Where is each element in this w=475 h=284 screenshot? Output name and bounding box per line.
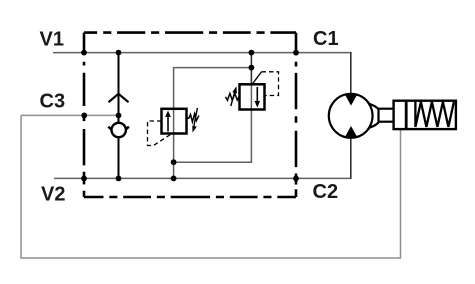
- junction dot top box-left: [81, 50, 87, 56]
- motor triangle top: [345, 94, 358, 106]
- junction dot C3 check-valve: [116, 113, 122, 119]
- wire brake release loop: [21, 115, 401, 258]
- motor shaft collar: [369, 104, 381, 128]
- svg-text:V1: V1: [40, 29, 64, 51]
- enclosure dashed box left edge: [83, 33, 86, 197]
- motor circle M1: [329, 94, 373, 138]
- junction dot bottom box-left: [81, 176, 87, 182]
- junction dot relief cross: [171, 159, 177, 165]
- wire motor bottom stub: [350, 137, 352, 179]
- motor triangle bottom: [345, 126, 358, 138]
- junction dot relief bridge: [249, 65, 255, 71]
- relief valve left pilot dashed line: [148, 121, 171, 146]
- relief valve right adjust arrow: [231, 93, 235, 107]
- enclosure dashed box bottom edge: [84, 196, 296, 199]
- wire relief bridge bottom: [173, 134, 175, 179]
- relief valve right box: [240, 84, 265, 109]
- enclosure dashed box right edge: [295, 33, 298, 197]
- svg-text:C1: C1: [313, 28, 339, 50]
- wire relief feed stub: [250, 53, 252, 85]
- check valve flow arrow: [109, 94, 129, 102]
- junction dot C3 box-left-edge: [81, 113, 87, 119]
- brake piston: [405, 101, 408, 129]
- wire V2 to C2 main bottom line: [54, 177, 351, 179]
- wire C3 line: [21, 115, 401, 258]
- relief valve right pilot diagonal: [252, 72, 261, 84]
- wire relief cross link: [174, 110, 252, 163]
- junction dot top check-valve: [116, 50, 122, 56]
- wire V1 to C1 main top line: [53, 53, 351, 179]
- junction dot top relief-feed: [249, 50, 255, 56]
- brake cylinder: [394, 101, 456, 129]
- check valve ball: [112, 123, 126, 137]
- svg-text:V2: V2: [41, 183, 65, 205]
- junction dot bottom box-right: [293, 176, 299, 182]
- check valve seat: [108, 127, 129, 137]
- relief valve left adjust arrow: [194, 108, 198, 128]
- junction dot bottom check-valve: [116, 176, 122, 182]
- relief valve right spring: [226, 94, 240, 101]
- relief valve left internal arrow: [167, 115, 169, 132]
- wire motor top stub: [350, 52, 352, 94]
- wire through left valve: [173, 109, 175, 134]
- relief valve right pilot dashed line: [262, 72, 279, 96]
- relief valve left box: [162, 109, 187, 134]
- junction dot top box-right: [293, 50, 299, 56]
- brake rod: [379, 109, 406, 122]
- brake spring: [415, 102, 454, 127]
- relief valve right internal arrow: [256, 87, 258, 103]
- wire check valve branch: [118, 53, 120, 179]
- relief valve left spring: [187, 114, 199, 122]
- junction dot bottom relief-drain: [171, 176, 177, 182]
- svg-text:C3: C3: [40, 90, 66, 112]
- svg-text:C2: C2: [313, 181, 339, 203]
- wire relief bridge top: [174, 68, 252, 109]
- wire through right valve: [250, 84, 252, 109]
- enclosure dashed box top edge: [84, 31, 296, 34]
